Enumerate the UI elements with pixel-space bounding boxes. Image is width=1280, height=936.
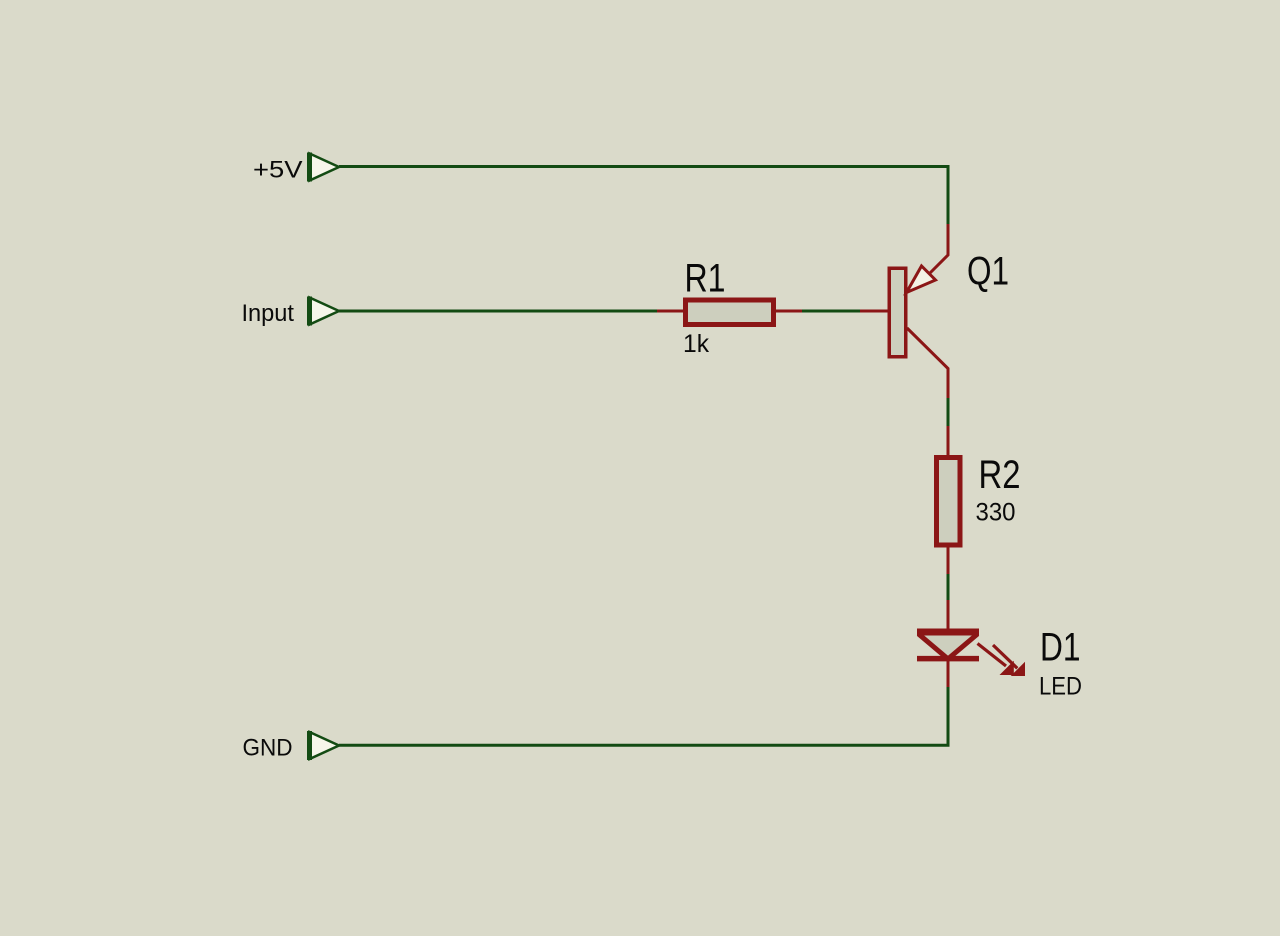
D1 cathode pin [947,661,950,689]
Q1 base bar [889,268,906,357]
D1 light arrow 2 [993,645,1017,668]
svg-text:R1: R1 [685,257,726,301]
power terminal +5V [310,153,340,182]
svg-text:R2: R2 [979,453,1021,497]
Q1 emitter arrow [907,266,936,293]
svg-text:LED: LED [1039,673,1082,701]
wire Input to R1 [339,310,658,313]
svg-text:+5V: +5V [253,157,303,184]
Q1 collector lead [907,328,948,399]
D1 light arrow 1 [978,644,1007,667]
D1 cathode bar [917,656,979,662]
resistor R1 pin right [776,310,803,313]
Q1 base pin [860,310,888,313]
diode D1 LED [917,600,1025,689]
Q1 emitter lead [930,224,949,274]
svg-text:Q1: Q1 [967,250,1009,294]
wire +5V rail horizontal [339,167,948,225]
D1 triangle [917,631,979,658]
D1 anode pin [947,600,950,630]
resistor R2 body [937,458,961,546]
ground terminal GND [310,731,340,760]
svg-text:Input: Input [242,300,295,327]
D1 anode bar top [917,629,979,636]
svg-text:330: 330 [976,499,1016,527]
resistor R2 pin top [947,426,950,456]
wire Q1 collector to R2 [947,398,950,428]
resistor R2 pin bottom [947,547,950,576]
transistor Q1 [860,224,948,399]
wire D1 to GND [339,687,948,745]
wire R2 to D1 [947,574,950,602]
svg-text:GND: GND [243,735,293,762]
svg-text:D1: D1 [1040,626,1081,670]
resistor R1 pin left [657,310,684,313]
input terminal Input [310,297,340,326]
svg-text:1k: 1k [683,330,709,358]
resistor R1 body [686,300,774,325]
wire R1 to Q1 base [802,310,861,313]
